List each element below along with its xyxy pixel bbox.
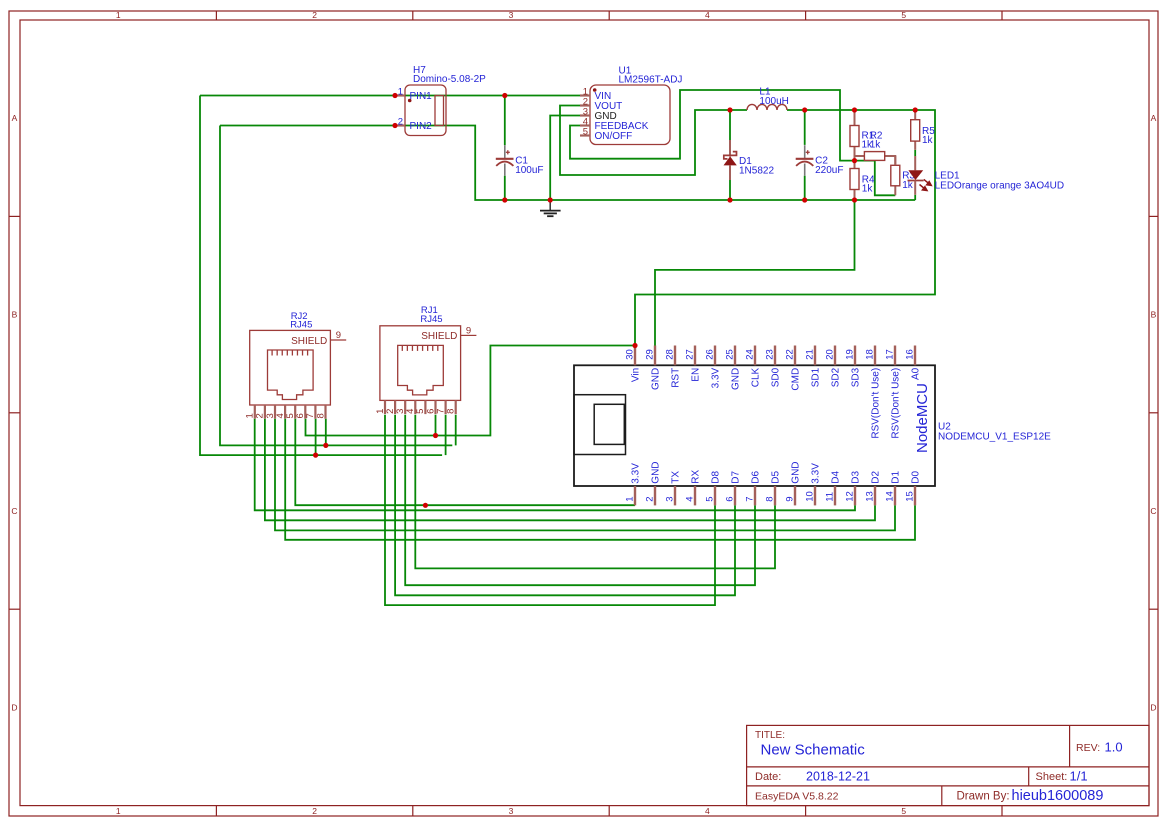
svg-text:LEDOrange orange 3AO4UD: LEDOrange orange 3AO4UD [935, 181, 1065, 192]
svg-text:100uH: 100uH [759, 96, 788, 107]
svg-text:D6: D6 [750, 470, 761, 483]
svg-text:SD3: SD3 [850, 367, 861, 387]
svg-text:LM2596T-ADJ: LM2596T-ADJ [619, 74, 683, 85]
svg-text:3.3V: 3.3V [810, 463, 821, 484]
svg-text:1k: 1k [902, 180, 914, 191]
svg-text:5: 5 [901, 806, 906, 816]
svg-text:SHIELD: SHIELD [291, 336, 327, 347]
svg-text:3: 3 [665, 497, 676, 502]
svg-text:D2: D2 [870, 470, 881, 483]
svg-text:21: 21 [805, 349, 816, 360]
svg-text:5: 5 [901, 10, 906, 20]
svg-text:RST: RST [670, 368, 681, 388]
svg-text:A0: A0 [910, 367, 921, 380]
svg-text:100uF: 100uF [515, 165, 543, 176]
svg-text:D1: D1 [890, 470, 901, 483]
svg-text:3: 3 [509, 10, 514, 20]
svg-text:1: 1 [625, 497, 636, 502]
svg-text:16: 16 [905, 349, 916, 360]
svg-text:1: 1 [398, 86, 403, 97]
svg-text:PIN1: PIN1 [410, 91, 433, 102]
svg-text:9: 9 [336, 330, 341, 341]
svg-text:5: 5 [583, 126, 588, 137]
svg-text:Drawn By:: Drawn By: [957, 790, 1010, 802]
svg-text:RSV(Don't Use): RSV(Don't Use) [870, 368, 881, 439]
svg-text:B: B [12, 310, 18, 320]
svg-text:CLK: CLK [750, 367, 761, 387]
svg-text:25: 25 [725, 349, 736, 360]
svg-text:6: 6 [725, 497, 736, 502]
svg-text:SHIELD: SHIELD [421, 331, 457, 342]
svg-text:A: A [12, 113, 18, 123]
svg-text:NODEMCU_V1_ESP12E: NODEMCU_V1_ESP12E [938, 431, 1051, 442]
svg-text:C: C [1150, 506, 1156, 516]
svg-text:D4: D4 [830, 470, 841, 483]
svg-text:27: 27 [685, 349, 696, 360]
svg-text:22: 22 [785, 349, 796, 360]
svg-text:13: 13 [865, 491, 876, 502]
svg-text:8: 8 [765, 497, 776, 502]
svg-text:9: 9 [466, 326, 471, 337]
svg-text:1: 1 [116, 806, 121, 816]
svg-text:10: 10 [805, 491, 816, 502]
svg-text:D3: D3 [850, 470, 861, 483]
svg-text:24: 24 [745, 349, 756, 360]
svg-text:29: 29 [645, 349, 656, 360]
svg-text:TX: TX [670, 471, 681, 484]
svg-text:1.0: 1.0 [1105, 740, 1123, 755]
svg-text:11: 11 [825, 492, 836, 502]
svg-text:1k: 1k [922, 135, 934, 146]
svg-text:ON/OFF: ON/OFF [595, 131, 633, 142]
svg-text:2: 2 [312, 806, 317, 816]
svg-text:20: 20 [825, 349, 836, 360]
svg-text:REV:: REV: [1076, 742, 1100, 754]
svg-text:D7: D7 [730, 470, 741, 483]
svg-text:23: 23 [765, 349, 776, 360]
svg-text:SD0: SD0 [770, 367, 781, 387]
svg-text:3.3V: 3.3V [710, 367, 721, 388]
svg-text:4: 4 [705, 806, 710, 816]
svg-text:19: 19 [845, 349, 856, 360]
svg-text:4: 4 [685, 497, 696, 502]
svg-text:28: 28 [665, 349, 676, 360]
svg-text:hieub1600089: hieub1600089 [1012, 788, 1104, 804]
svg-text:D: D [11, 702, 17, 712]
svg-text:2: 2 [312, 10, 317, 20]
svg-text:18: 18 [865, 349, 876, 360]
svg-text:RJ45: RJ45 [420, 314, 442, 325]
svg-text:PIN2: PIN2 [410, 121, 433, 132]
svg-text:1k: 1k [870, 140, 882, 151]
svg-text:1: 1 [116, 10, 121, 20]
svg-text:1/1: 1/1 [1070, 769, 1088, 784]
svg-text:SD2: SD2 [830, 367, 841, 387]
svg-text:EN: EN [690, 368, 701, 382]
svg-text:RSV(Don't Use): RSV(Don't Use) [890, 368, 901, 439]
svg-text:CMD: CMD [790, 368, 801, 391]
svg-text:A: A [1151, 113, 1157, 123]
svg-text:5: 5 [705, 497, 716, 502]
svg-text:4: 4 [705, 10, 710, 20]
svg-text:17: 17 [885, 349, 896, 360]
svg-text:15: 15 [905, 491, 916, 502]
svg-text:1N5822: 1N5822 [739, 166, 774, 177]
svg-text:26: 26 [705, 349, 716, 360]
svg-text:30: 30 [625, 349, 636, 360]
svg-text:GND: GND [650, 368, 661, 390]
svg-text:EasyEDA V5.8.22: EasyEDA V5.8.22 [755, 790, 839, 802]
svg-text:GND: GND [730, 368, 741, 390]
svg-text:14: 14 [885, 491, 896, 502]
svg-text:3.3V: 3.3V [630, 463, 641, 484]
svg-text:Sheet:: Sheet: [1036, 771, 1068, 783]
svg-text:C: C [11, 506, 17, 516]
svg-text:8: 8 [315, 413, 326, 418]
svg-text:New Schematic: New Schematic [761, 742, 866, 759]
svg-text:RJ45: RJ45 [290, 319, 312, 330]
svg-text:B: B [1151, 310, 1157, 320]
svg-text:7: 7 [745, 497, 756, 502]
svg-text:Date:: Date: [755, 771, 781, 783]
svg-text:2018-12-21: 2018-12-21 [806, 770, 870, 784]
svg-text:TITLE:: TITLE: [755, 730, 785, 741]
svg-text:D: D [1150, 702, 1156, 712]
svg-text:220uF: 220uF [815, 165, 843, 176]
svg-text:GND: GND [650, 461, 661, 483]
svg-text:D5: D5 [770, 470, 781, 483]
svg-text:GND: GND [790, 461, 801, 483]
svg-text:12: 12 [845, 491, 856, 502]
svg-text:Domino-5.08-2P: Domino-5.08-2P [413, 74, 486, 85]
svg-text:1k: 1k [862, 183, 874, 194]
svg-text:2: 2 [645, 497, 656, 502]
svg-text:9: 9 [785, 497, 796, 502]
svg-text:3: 3 [509, 806, 514, 816]
svg-text:RX: RX [690, 469, 701, 483]
svg-text:8: 8 [446, 409, 457, 414]
svg-text:SD1: SD1 [810, 367, 821, 387]
svg-text:2: 2 [398, 116, 403, 127]
svg-text:Vin: Vin [630, 368, 641, 382]
svg-text:D0: D0 [910, 470, 921, 483]
svg-text:NodeMCU: NodeMCU [914, 383, 931, 453]
svg-text:D8: D8 [710, 470, 721, 483]
